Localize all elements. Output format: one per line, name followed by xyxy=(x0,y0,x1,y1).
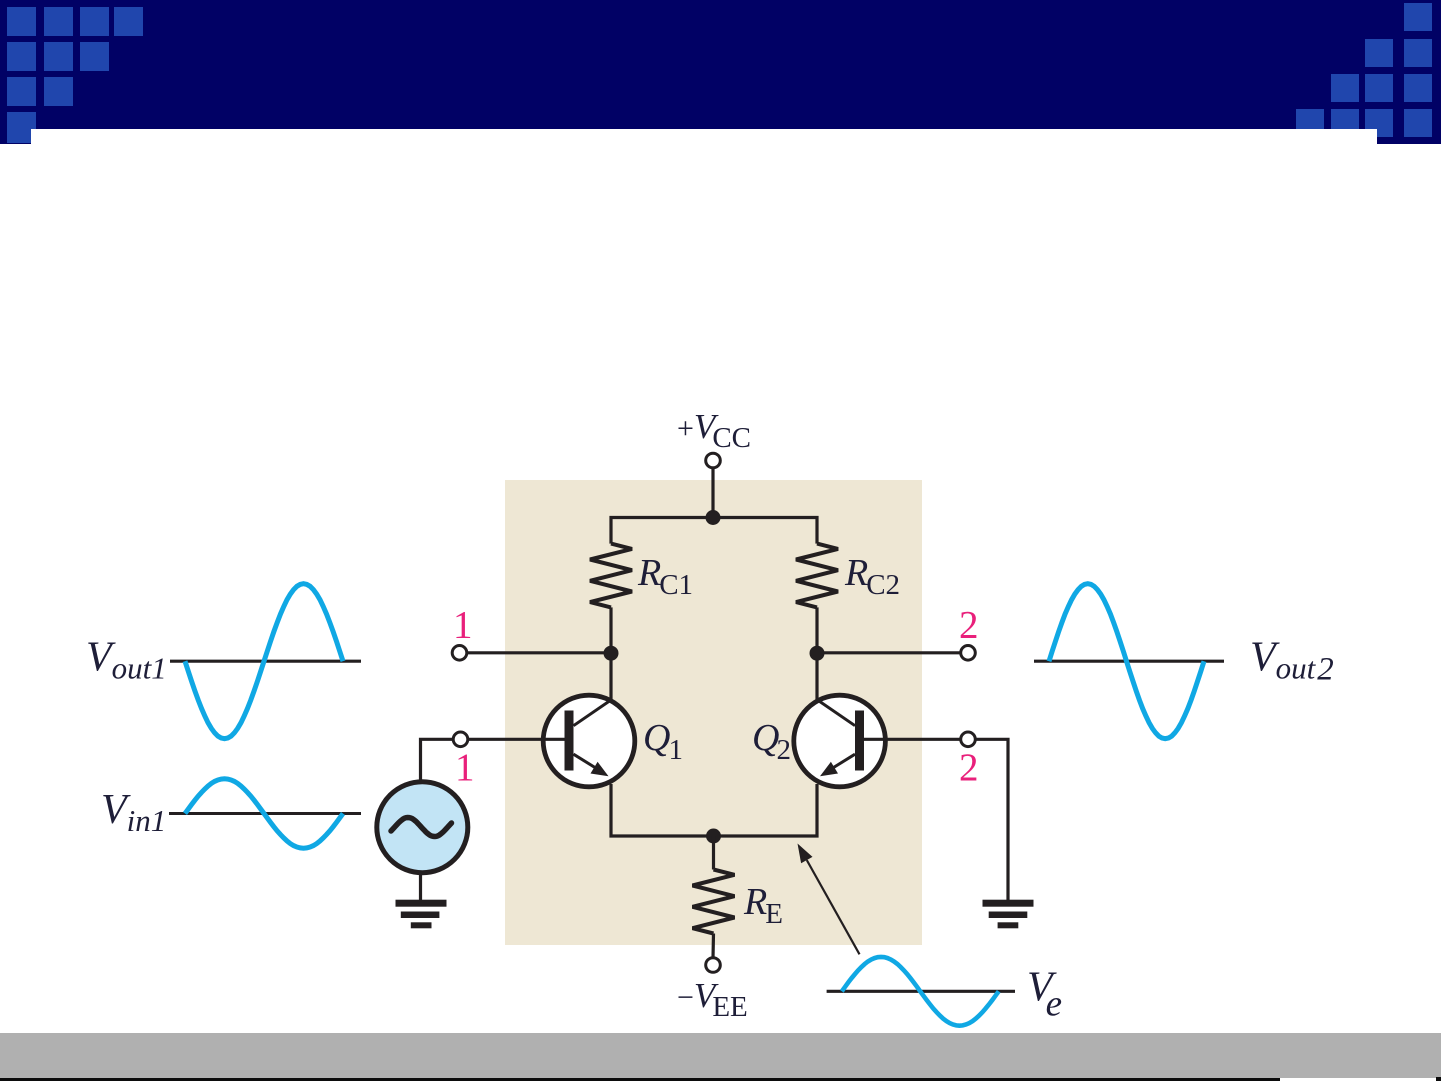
decorative squares left xyxy=(7,7,36,36)
transistor Q2 xyxy=(794,695,961,787)
waveform Vin1 sine xyxy=(185,779,343,848)
terminal output 1 xyxy=(452,646,467,661)
terminal +VCC xyxy=(706,453,721,468)
top banner xyxy=(0,0,1441,144)
junction emitter node xyxy=(706,829,721,844)
junction node 2 xyxy=(810,646,825,661)
amplifier shaded block xyxy=(505,480,922,945)
svg-text:Ve: Ve xyxy=(1027,965,1062,1025)
transistor Q1 xyxy=(469,695,635,787)
waveform Vout1 sine xyxy=(185,584,343,739)
svg-text:2: 2 xyxy=(959,604,979,647)
decorative squares right xyxy=(1404,3,1432,31)
terminal input 2 xyxy=(961,732,976,747)
waveform Vout1 axis xyxy=(170,660,361,663)
resistor RC1 xyxy=(590,544,632,608)
resistor RE xyxy=(693,870,735,934)
waveform Vout2 axis xyxy=(1034,660,1224,663)
svg-text:Vout1: Vout1 xyxy=(86,635,167,686)
footer black mark right xyxy=(1436,1077,1441,1081)
ground (left) xyxy=(396,900,447,929)
resistor RC2 xyxy=(796,544,838,608)
wire RC1 to collector node xyxy=(609,607,612,700)
waveform Vin1 axis xyxy=(169,812,361,815)
terminal output 2 xyxy=(961,646,976,661)
svg-text:Vout2: Vout2 xyxy=(1250,635,1334,688)
wire base 2 to ground xyxy=(976,739,1009,900)
terminal input 1 xyxy=(453,732,468,747)
svg-text:1: 1 xyxy=(453,604,473,647)
wire output 1 xyxy=(466,651,611,654)
source Vin generator xyxy=(377,782,468,873)
svg-text:+VCC: +VCC xyxy=(677,407,751,454)
svg-text:2: 2 xyxy=(959,746,979,789)
wire emitter to RE xyxy=(712,836,715,870)
wire source to ground xyxy=(419,873,422,901)
svg-text:−VEE: −VEE xyxy=(677,976,748,1023)
junction VCC rail xyxy=(706,510,721,525)
ground (right) xyxy=(983,900,1034,929)
footer gray bar xyxy=(0,1033,1441,1078)
svg-text:1: 1 xyxy=(455,746,475,789)
wire Q1 emitter xyxy=(611,784,817,836)
waveform Ve sine xyxy=(842,957,999,1026)
wire VCC vertical xyxy=(711,468,714,518)
wire RE to VEE xyxy=(711,934,715,959)
waveform Ve axis xyxy=(827,990,1015,993)
svg-text:Vin1: Vin1 xyxy=(101,787,166,838)
wire top rail xyxy=(611,518,817,544)
footer black line xyxy=(0,1078,1280,1081)
waveform Vout2 sine xyxy=(1049,584,1204,739)
wire base 1 input xyxy=(421,739,453,779)
junction node 1 xyxy=(604,646,619,661)
terminal -VEE xyxy=(706,958,721,973)
arrow to emitter node xyxy=(798,844,860,955)
wire output 2 xyxy=(817,651,961,654)
wire RC2 to collector node xyxy=(815,607,818,700)
